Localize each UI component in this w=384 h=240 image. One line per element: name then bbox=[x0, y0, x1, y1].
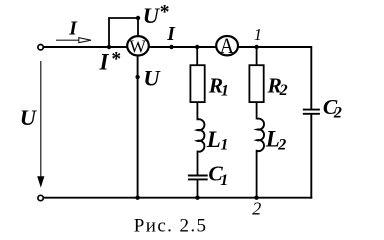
capacitor C2 bbox=[303, 110, 320, 114]
resistor R1 bbox=[190, 65, 204, 102]
svg-text:2: 2 bbox=[252, 198, 261, 218]
svg-text:*: * bbox=[160, 2, 170, 23]
svg-text:*: * bbox=[111, 49, 121, 70]
svg-text:1: 1 bbox=[254, 25, 262, 44]
node junction R1 branch top bbox=[195, 45, 199, 49]
svg-text:L: L bbox=[206, 127, 221, 152]
svg-text:U: U bbox=[143, 65, 161, 90]
svg-text:U: U bbox=[20, 105, 38, 130]
svg-text:I: I bbox=[68, 18, 78, 39]
resistor R2 bbox=[249, 65, 263, 102]
node U dot on voltage branch bbox=[135, 75, 139, 79]
svg-text:I: I bbox=[166, 24, 176, 45]
svg-text:A: A bbox=[220, 33, 234, 58]
svg-text:Рис. 2.5: Рис. 2.5 bbox=[134, 216, 208, 237]
wire top horizontal bbox=[43, 46, 311, 48]
wire wattmeter voltage branch (W bottom to bottom wire) bbox=[137, 45, 139, 198]
wattmeter W bbox=[127, 36, 149, 57]
wire R1 branch top bbox=[196, 47, 198, 66]
svg-text:2: 2 bbox=[279, 82, 288, 99]
wire from U* dot down to W top bbox=[137, 18, 139, 38]
wire C1 to bottom bbox=[197, 179, 199, 197]
terminal input bottom bbox=[38, 195, 43, 200]
svg-text:1: 1 bbox=[220, 137, 228, 154]
svg-text:1: 1 bbox=[220, 172, 228, 189]
inductor L2 bbox=[257, 119, 264, 152]
svg-text:1: 1 bbox=[221, 83, 229, 100]
terminal input top bbox=[38, 45, 43, 50]
svg-text:I: I bbox=[99, 49, 110, 74]
node junction C1 branch bottom bbox=[195, 196, 199, 200]
svg-text:2: 2 bbox=[333, 105, 342, 122]
svg-text:W: W bbox=[129, 37, 146, 57]
inductor L1 bbox=[197, 119, 204, 151]
svg-text:2: 2 bbox=[277, 137, 286, 154]
wire wattmeter current-coil loop bbox=[109, 18, 138, 47]
node junction W voltage branch bottom bbox=[135, 196, 139, 200]
node 2 dot bbox=[254, 196, 258, 200]
wire L2 to bottom bbox=[256, 150, 258, 198]
node 1 dot bbox=[254, 45, 258, 49]
arrow I (current, open head) bbox=[56, 38, 91, 43]
node I dot after wattmeter bbox=[169, 45, 173, 49]
capacitor C1 bbox=[188, 176, 208, 180]
wire L1 to C1 bbox=[197, 151, 199, 176]
arrow U (voltage, pointing down) bbox=[37, 61, 44, 188]
wire right vertical upper (node 1 to C2) bbox=[310, 46, 312, 109]
wire R1 to L1 bbox=[196, 102, 198, 120]
wire bottom horizontal bbox=[43, 197, 312, 199]
node I* dot (wattmeter current terminal) bbox=[107, 45, 111, 49]
wire right vertical lower (C2 to node 2) bbox=[310, 114, 312, 199]
wire R2 branch top bbox=[256, 47, 258, 66]
ammeter A bbox=[216, 33, 238, 58]
node U* dot (wattmeter voltage terminal) bbox=[136, 16, 140, 20]
svg-text:U: U bbox=[143, 3, 161, 28]
wire R2 to L2 bbox=[256, 102, 258, 119]
